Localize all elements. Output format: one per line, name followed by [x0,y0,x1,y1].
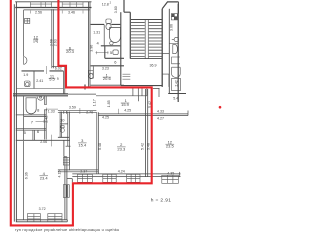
shaft shelf line [169,43,178,45]
wall tick right end [187,111,189,116]
room3 bottom wall (double) [58,170,99,172]
svg-text:3.46: 3.46 [68,10,75,14]
room4 east wall lower [65,157,72,220]
WC box neighbor [90,67,93,79]
svg-text:10: 10 [60,117,65,122]
fraction bars room labels [33,39,174,176]
svg-text:4.24: 4.24 [118,170,125,174]
stair landing edge [130,58,162,60]
shaft bottom wall [168,93,186,95]
svg-text:1.9: 1.9 [23,73,28,77]
svg-text:15.4: 15.4 [78,142,87,147]
landing bottom wall [121,85,162,87]
window W2 top of room 6 [62,2,83,8]
wall tick top right [178,2,180,14]
dim line room7 [36,120,45,123]
svg-text:2.42: 2.42 [175,80,179,86]
dim line room11 door [46,66,48,74]
stair top flight edge [131,19,162,21]
dim tick room1 mid [117,109,119,114]
svg-text:2.42: 2.42 [45,116,49,123]
window S4 room12 [162,175,179,183]
svg-text:2.63: 2.63 [54,39,58,46]
svg-text:5.48: 5.48 [98,143,102,150]
window S1 [78,174,93,182]
room2 right wall (double) [146,89,148,177]
svg-text:2.37: 2.37 [80,170,87,174]
svg-text:3.72: 3.72 [39,207,46,211]
svg-text:1.17: 1.17 [93,99,97,106]
stove in room 12 [25,18,30,23]
sink room 5 neighbor [113,50,118,55]
wall outer-left [14,2,16,222]
wall room5 bottom neighbor [105,57,124,59]
closet 10/9 walls [60,111,69,146]
svg-text:4.25: 4.25 [124,109,131,113]
wall neighbor right [120,12,122,85]
stove circle neighbor room4 [110,42,113,45]
window B2 room4 bottom [48,214,62,222]
corridor door ticks [133,88,147,96]
wall neighbor bottom [91,84,124,86]
svg-text:12.8: 12.8 [102,3,109,7]
svg-text:3.23: 3.23 [102,67,109,71]
entrance steps [123,74,131,79]
room3 right wall / room2 left (double) [97,112,99,173]
wall right of red below landing [153,88,160,97]
shaft west wall [168,9,170,94]
room labels [24,35,175,181]
room1 door leaf [138,96,140,102]
wall junction double tick at neighbor [84,85,85,90]
window S3 [127,174,140,182]
building outline top-right diagonal [162,2,178,9]
room11 bottom inner face [17,88,64,90]
wall room 11 right (double) [63,67,64,94]
window E2 room4 east [63,185,69,198]
stair treads [131,20,162,57]
svg-text:5.5: 5.5 [49,77,55,82]
toilet closet 9 [61,126,65,133]
wall rooms 4|5 neighbor [101,46,121,59]
shaft box 3 [172,78,181,90]
dimension texts vertical [25,6,179,179]
wall tick room12 right end [179,172,181,177]
svg-text:20.6: 20.6 [103,76,112,81]
svg-text:23.4: 23.4 [40,175,49,180]
svg-text:1.33: 1.33 [48,109,55,113]
rooms 5|6 divider [33,130,35,140]
svg-text:h = 2.91: h = 2.91 [151,197,172,203]
wall stairwell east [161,9,163,87]
svg-text:6.36: 6.36 [25,172,29,179]
dim line corridor 1.33 [46,108,58,111]
svg-text:4.15: 4.15 [57,171,61,178]
room4 bottom outer wall [16,220,68,222]
svg-text:2.41: 2.41 [36,79,43,83]
svg-text:2.06: 2.06 [40,140,47,144]
bathroom8 bottom wall [16,115,46,117]
svg-text:36.9: 36.9 [150,64,157,68]
svg-text:15.9: 15.9 [121,102,130,107]
watermark faint [15,227,119,232]
svg-text:4.25: 4.25 [102,115,109,119]
wall inner face left room12 [23,10,25,56]
window W1 top of room 12 [30,2,51,8]
svg-text:23.3: 23.3 [117,146,126,151]
room4 top wall [16,137,70,140]
window E1 room4 east [63,158,69,166]
svg-text:1.31: 1.31 [93,30,100,34]
bathroom8 left inner wall [23,96,25,220]
room7 bottom wall [16,129,46,130]
wall room 6 bottom stub [52,66,65,68]
room1 top wall [96,95,147,97]
svg-text:3.06: 3.06 [169,24,173,31]
toilet neighbor WC [89,70,94,78]
dim ticks 2.56 / 3.46 [30,11,83,14]
svg-text:2.56: 2.56 [35,10,42,14]
red dot [219,106,222,109]
svg-text:5.4: 5.4 [173,96,178,100]
wall stairwell west upper [124,0,130,59]
svg-text:4.33: 4.33 [157,109,164,113]
svg-text:4.27: 4.27 [157,117,164,121]
room4 east wall upper [64,140,67,157]
sink room 11 [25,81,30,86]
elevator box east of landing [162,74,169,87]
svg-text:[4]: [4] [33,38,37,43]
svg-text:6.02: 6.02 [55,66,62,70]
thick wall band left [13,94,68,96]
bathtub neighbor [110,28,121,43]
svg-text:5.42: 5.42 [141,143,145,150]
wall inner face top room12/6 [24,9,90,11]
window S2 [103,174,116,182]
svg-text:9: 9 [57,77,59,81]
wall top outer line [15,1,91,3]
window B1 room4 bottom [28,214,41,222]
bathtub apartment [26,98,36,114]
wall top inner line [15,7,91,9]
dim tick room4 door [51,135,53,147]
wall room 11 top [22,70,64,72]
shaft D fixture [173,45,178,54]
svg-text:5.48: 5.48 [146,143,150,150]
wall room6 bottom neighbor [91,65,124,67]
hall south wall / room3 top (double) [58,111,97,113]
wall divider rooms 12|6 [52,9,54,68]
svg-text:1.85: 1.85 [107,100,111,107]
shaft box 1 [172,57,180,64]
corridor west wall (double) [44,96,47,139]
shaft east wall [177,4,179,103]
shaft G fixture [172,37,179,41]
svg-text:3.96: 3.96 [90,45,94,52]
svg-text:2.70: 2.70 [86,111,93,115]
stair stringers [145,20,149,59]
toilet neighbor bath [106,19,111,30]
red apartment outline [11,0,152,225]
shaft hatched panel [171,14,177,20]
wall neighbor bath divider [103,24,105,45]
dim tick hall 3.59 end [79,108,81,114]
svg-text:20.3: 20.3 [66,49,75,54]
svg-text:4.35: 4.35 [167,171,174,175]
wall room11 divider [33,71,35,89]
dimension texts horizontal [23,1,178,211]
hall corridor south wall left [68,93,96,95]
svg-text:гyn гopoдckoe ynpabлehue uhbeh: гyn гopoдckoe ynpabлehue uhbehtapuзaцuu … [15,227,119,232]
svg-text:3.59: 3.59 [69,106,76,110]
room2/12 bottom wall (double) [72,174,180,177]
sink bathroom8 [37,97,44,101]
room2/12 top wall (double) [98,114,188,116]
door arc room 12 bottom-left [24,57,27,65]
shaft box 2 arc-notch [172,67,181,77]
room3 left wall lower [69,146,71,170]
closet bottom link wall [66,145,71,147]
wall neighbor bathroom bottom [91,23,121,25]
corridor top wall under red [101,87,153,89]
wall room6 right / neighbor left (double) [88,2,90,87]
dim line room5 [96,51,109,54]
svg-text:3.80: 3.80 [114,6,118,13]
